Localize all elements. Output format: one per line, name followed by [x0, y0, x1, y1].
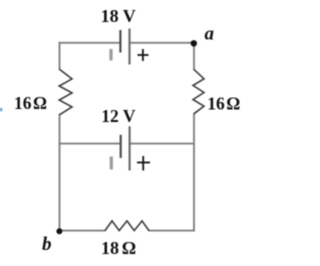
svg-text:18: 18	[101, 238, 119, 258]
svg-text:b: b	[42, 234, 52, 255]
svg-text:Ω: Ω	[122, 238, 136, 258]
svg-text:18 V: 18 V	[101, 6, 136, 26]
svg-text:Ω: Ω	[226, 94, 240, 114]
svg-text:Ω: Ω	[33, 93, 47, 113]
svg-text:16: 16	[14, 93, 32, 113]
svg-text:a: a	[205, 24, 215, 45]
svg-text:12 V: 12 V	[101, 106, 136, 126]
svg-text:16: 16	[207, 94, 225, 114]
